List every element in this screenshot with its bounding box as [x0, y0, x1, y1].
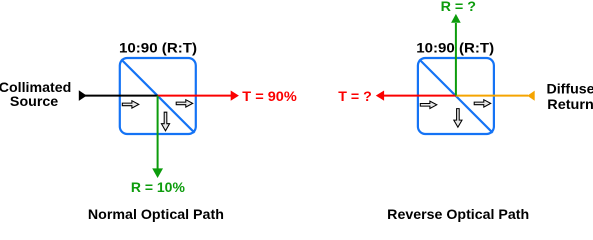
transmitted beam arrowhead — [231, 91, 239, 101]
beamsplitter cube BS1 body — [120, 58, 196, 134]
svg-text:T = 90%: T = 90% — [242, 88, 297, 104]
transmitted beam wire (red) — [158, 95, 232, 97]
svg-text:R = ?: R = ? — [441, 0, 476, 14]
input beam arrowhead — [79, 90, 87, 101]
svg-text:10:90 (R:T): 10:90 (R:T) — [119, 39, 197, 55]
svg-text:Return: Return — [547, 96, 593, 112]
svg-text:Reverse Optical Path: Reverse Optical Path — [387, 206, 529, 222]
coating-orientation arrow A3 (bottom, points down) — [161, 112, 169, 131]
input beam wire (black) — [84, 95, 158, 97]
beamsplitter cube BS2 body — [418, 58, 494, 134]
reflected beam arrowhead (points up) — [451, 14, 461, 23]
reflected beam wire (green, down) — [157, 96, 159, 170]
svg-text:Diffuse: Diffuse — [547, 81, 593, 97]
beamsplitter cube BS1 diagonal — [121, 59, 194, 132]
coating-orientation arrow A2 (right, points right) — [176, 100, 193, 107]
reflected beam wire (green, up) — [455, 23, 457, 96]
coating-orientation arrow B3 (bottom, points down) — [454, 109, 462, 128]
svg-text:Source: Source — [10, 93, 59, 109]
reflected beam arrowhead — [152, 168, 163, 178]
coating-orientation arrow A1 (left, points right) — [122, 101, 139, 108]
diffuse return beam wire (orange) — [456, 95, 528, 97]
coating-orientation arrow B1 (left, points right) — [420, 101, 437, 108]
transmitted beam wire (red, leftward) — [384, 95, 456, 97]
svg-text:R = 10%: R = 10% — [131, 179, 186, 195]
svg-text:T = ?: T = ? — [338, 88, 372, 104]
svg-text:10:90 (R:T): 10:90 (R:T) — [416, 39, 494, 55]
diffuse return arrowhead (points left at line start) — [527, 91, 534, 101]
coating-orientation arrow B2 (right, points right) — [474, 100, 491, 107]
svg-text:Normal Optical Path: Normal Optical Path — [88, 206, 224, 222]
beamsplitter cube BS2 diagonal — [419, 59, 492, 132]
transmitted beam arrowhead (points left) — [376, 91, 384, 101]
